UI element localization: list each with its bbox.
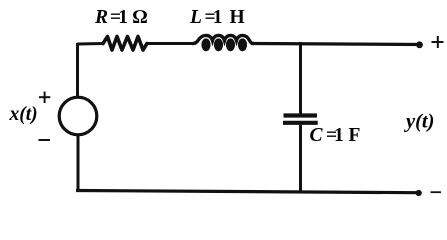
svg-text:1: 1 xyxy=(213,7,223,28)
svg-text:Ω: Ω xyxy=(133,7,148,28)
svg-text:L: L xyxy=(189,7,202,28)
svg-text:F: F xyxy=(349,125,361,146)
svg-text:C: C xyxy=(310,125,324,146)
svg-text:y(t): y(t) xyxy=(403,111,434,133)
svg-text:R: R xyxy=(94,7,108,28)
svg-text:x(t): x(t) xyxy=(9,104,38,125)
svg-text:1: 1 xyxy=(334,125,344,146)
svg-text:1: 1 xyxy=(118,7,128,28)
svg-text:H: H xyxy=(230,7,245,28)
